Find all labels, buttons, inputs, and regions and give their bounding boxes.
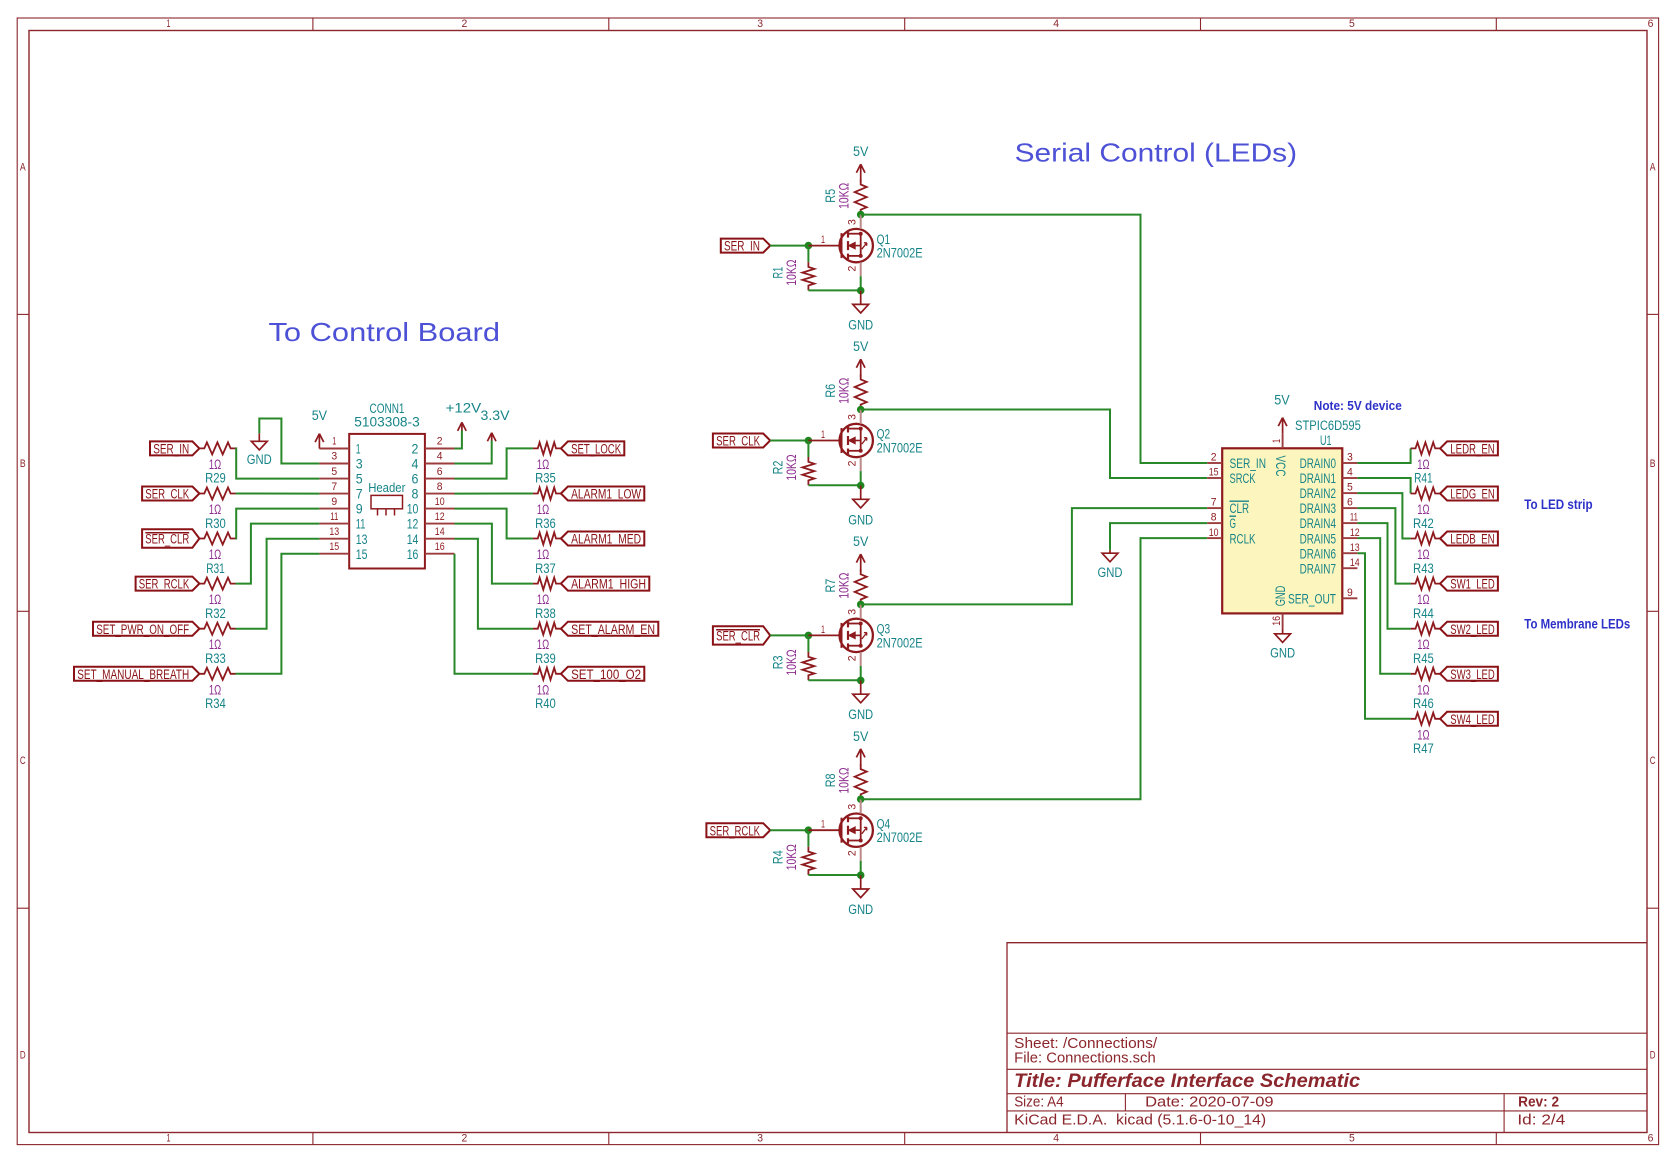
wire U1 DRAIN1 to LEDG_EN — [1357, 478, 1410, 494]
svg-text:2: 2 — [462, 1133, 468, 1145]
wire gate — [770, 245, 808, 247]
svg-text:5V: 5V — [312, 408, 327, 423]
svg-text:5: 5 — [1349, 1133, 1355, 1145]
wire gate node to pulldown — [807, 441, 809, 458]
svg-text:11: 11 — [330, 511, 338, 523]
svg-text:Serial Control (LEDs): Serial Control (LEDs) — [1015, 138, 1298, 168]
svg-text:1: 1 — [821, 624, 825, 636]
svg-text:7: 7 — [1211, 497, 1217, 509]
svg-text:9: 9 — [1347, 587, 1353, 599]
svg-text:SW4_LED: SW4_LED — [1450, 712, 1495, 727]
svg-text:GND: GND — [247, 452, 272, 467]
svg-text:LEDB_EN: LEDB_EN — [1450, 532, 1494, 547]
wire pin 16 to SET_100_O2 — [455, 554, 533, 674]
svg-text:3: 3 — [1347, 452, 1353, 464]
svg-text:10KΩ: 10KΩ — [784, 649, 799, 675]
hierarchical label SER_IN — [150, 441, 199, 456]
svg-text:B: B — [20, 458, 26, 470]
svg-text:SET_PWR_ON_OFF: SET_PWR_ON_OFF — [96, 622, 189, 637]
svg-text:RCLK: RCLK — [1230, 531, 1256, 546]
svg-text:10KΩ: 10KΩ — [836, 378, 851, 404]
power GND (connector pin 3) — [247, 433, 272, 467]
hierarchical label SER_CLR — [142, 529, 199, 547]
svg-text:Note: 5V device: Note: 5V device — [1314, 398, 1402, 413]
svg-text:R33: R33 — [205, 651, 226, 666]
junction drain node — [857, 601, 865, 609]
svg-text:R29: R29 — [205, 471, 226, 486]
svg-text:16: 16 — [435, 541, 445, 553]
resistor R38 1Ω — [533, 578, 561, 621]
svg-text:DRAIN4: DRAIN4 — [1300, 516, 1337, 531]
wire SET_MANUAL_BREATH to pin 15 — [236, 554, 320, 674]
power 5V (Q1 drain pull-up) — [853, 144, 868, 181]
svg-text:SER_CLR: SER_CLR — [145, 532, 189, 547]
svg-text:SW2_LED: SW2_LED — [1450, 622, 1495, 637]
wire U1 DRAIN6 to SW4_LED — [1357, 553, 1410, 719]
wire pin 14 to SET_ALARM_EN — [455, 539, 533, 629]
svg-text:To Control Board: To Control Board — [269, 317, 501, 347]
svg-text:6: 6 — [1648, 1133, 1654, 1145]
wire Q2 drain to U1 SRCK — [861, 410, 1207, 479]
svg-text:GND: GND — [848, 902, 873, 917]
wire pulldown to source node — [808, 289, 860, 291]
svg-text:3: 3 — [757, 1133, 763, 1145]
hierarchical label SET_MANUAL_BREATH — [74, 667, 199, 682]
wire U1 DRAIN3 to SW1_LED — [1357, 508, 1410, 583]
svg-text:1Ω: 1Ω — [209, 502, 221, 517]
svg-text:1Ω: 1Ω — [1417, 637, 1429, 652]
svg-text:11: 11 — [1350, 512, 1358, 524]
power GND (Q4 source) — [848, 875, 873, 917]
hierarchical label SET_100_O2 — [561, 667, 644, 682]
svg-text:GND: GND — [848, 707, 873, 722]
svg-text:3: 3 — [847, 609, 859, 615]
svg-text:14: 14 — [1350, 557, 1360, 569]
note: To Control Board — [269, 317, 501, 347]
hierarchical label ALARM1_LOW — [561, 487, 644, 502]
svg-text:5: 5 — [1347, 482, 1353, 494]
svg-text:R38: R38 — [535, 606, 556, 621]
wire pulldown to source node — [808, 679, 860, 681]
resistor R39 1Ω — [533, 623, 561, 666]
svg-text:1: 1 — [356, 442, 361, 457]
svg-text:SW3_LED: SW3_LED — [1450, 667, 1495, 682]
hierarchical label SER_IN (gate of Q1) — [721, 239, 770, 254]
svg-text:R41: R41 — [1414, 471, 1433, 486]
svg-text:Date: 2020-07-09: Date: 2020-07-09 — [1145, 1094, 1274, 1110]
svg-text:+12V: +12V — [446, 401, 482, 416]
svg-text:Rev: 2: Rev: 2 — [1518, 1094, 1559, 1110]
resistor R6 10KΩ pull-up — [823, 375, 867, 410]
svg-text:4: 4 — [1347, 467, 1353, 479]
svg-text:3: 3 — [356, 457, 363, 472]
svg-text:5V: 5V — [853, 729, 868, 744]
svg-text:Header: Header — [368, 481, 405, 495]
resistor R7 10KΩ pull-up — [823, 569, 867, 604]
svg-text:10: 10 — [435, 496, 445, 508]
svg-text:2N7002E: 2N7002E — [877, 246, 923, 261]
svg-text:10KΩ: 10KΩ — [784, 844, 799, 870]
svg-text:R46: R46 — [1413, 696, 1434, 711]
svg-text:13: 13 — [356, 532, 368, 547]
resistor R42 1Ω — [1411, 488, 1441, 531]
svg-text:1Ω: 1Ω — [537, 502, 549, 517]
wire source to ground node — [860, 471, 862, 485]
wire SER_RCLK to pin 11 — [236, 524, 320, 584]
svg-text:6: 6 — [1648, 18, 1654, 30]
svg-text:13: 13 — [1350, 542, 1360, 554]
svg-text:R45: R45 — [1413, 651, 1434, 666]
svg-text:3: 3 — [847, 219, 859, 225]
svg-text:1: 1 — [332, 436, 336, 448]
power GND (Q1 source) — [848, 291, 873, 333]
IC U1 STPIC6D595 — [1207, 418, 1361, 629]
svg-text:2N7002E: 2N7002E — [877, 440, 923, 455]
svg-text:1Ω: 1Ω — [537, 637, 549, 652]
resistor R5 10KΩ pull-up — [823, 180, 867, 215]
wire SER_CLK to pin 7 — [236, 493, 320, 495]
svg-text:4: 4 — [1053, 1133, 1059, 1145]
power 5V (Q4 drain pull-up) — [853, 729, 868, 766]
svg-text:R32: R32 — [205, 606, 226, 621]
svg-text:GND: GND — [1098, 565, 1123, 580]
svg-text:R40: R40 — [535, 696, 556, 711]
svg-text:SER_CLK: SER_CLK — [145, 487, 189, 502]
resistor R32 1Ω — [199, 578, 235, 621]
resistor R36 1Ω — [533, 488, 561, 531]
hierarchical label SER_CLK — [142, 487, 199, 502]
junction drain node — [857, 211, 865, 219]
note: To LED strip — [1524, 497, 1592, 512]
wire U1 DRAIN2 to LEDB_EN — [1357, 493, 1410, 538]
hierarchical label SET_ALARM_EN — [561, 622, 658, 637]
svg-text:DRAIN3: DRAIN3 — [1300, 501, 1336, 516]
svg-text:GND: GND — [1273, 585, 1288, 606]
hierarchical label SER_CLR (gate of Q3) — [713, 626, 770, 644]
svg-text:1Ω: 1Ω — [209, 592, 221, 607]
svg-text:C: C — [20, 755, 26, 767]
svg-text:DRAIN5: DRAIN5 — [1300, 531, 1336, 546]
svg-text:GND: GND — [848, 512, 873, 527]
resistor R8 10KΩ pull-up — [823, 764, 867, 799]
svg-text:5: 5 — [331, 466, 337, 478]
wire pin 2 to +12V — [455, 431, 462, 449]
svg-text:GND: GND — [848, 317, 873, 332]
power 5V (Q3 drain pull-up) — [853, 534, 868, 571]
svg-text:3.3V: 3.3V — [481, 408, 510, 423]
junction gate node — [805, 437, 813, 445]
resistor R29 1Ω — [199, 442, 235, 485]
svg-text:R44: R44 — [1413, 606, 1434, 621]
svg-text:1Ω: 1Ω — [1417, 727, 1429, 742]
power +12V (connector pin 2) — [446, 401, 482, 432]
svg-text:2: 2 — [847, 656, 859, 662]
resistor R37 1Ω — [533, 533, 561, 576]
svg-text:6: 6 — [1347, 497, 1353, 509]
svg-text:Size: A4: Size: A4 — [1014, 1094, 1063, 1110]
svg-text:GND: GND — [1270, 646, 1295, 661]
hierarchical label ALARM1_MED — [561, 532, 644, 547]
junction source node — [857, 871, 865, 879]
svg-text:2N7002E: 2N7002E — [877, 635, 923, 650]
transistor Q3 2N7002E — [808, 604, 922, 666]
svg-text:SRCK: SRCK — [1230, 471, 1256, 486]
svg-text:To LED strip: To LED strip — [1524, 497, 1592, 512]
svg-text:ALARM1_LOW: ALARM1_LOW — [571, 487, 641, 502]
resistor R3 10KΩ pulldown — [770, 649, 814, 680]
svg-text:15: 15 — [356, 547, 368, 562]
svg-text:10: 10 — [1209, 527, 1219, 539]
svg-text:2: 2 — [1211, 452, 1217, 464]
wire pin 8 to ALARM1_LOW — [455, 493, 533, 495]
wire source to ground node — [860, 276, 862, 290]
junction gate node — [805, 242, 813, 250]
svg-text:R35: R35 — [535, 471, 556, 486]
junction source node — [857, 677, 865, 685]
wire pin 10 to ALARM1_MED — [455, 509, 533, 539]
power 5V (connector pin 1) — [312, 408, 327, 448]
svg-text:1Ω: 1Ω — [537, 547, 549, 562]
svg-text:1Ω: 1Ω — [1417, 592, 1429, 607]
resistor R40 1Ω — [533, 668, 561, 711]
svg-text:DRAIN6: DRAIN6 — [1300, 546, 1336, 561]
svg-text:R37: R37 — [535, 561, 556, 576]
svg-text:8: 8 — [1211, 512, 1217, 524]
svg-text:R43: R43 — [1413, 561, 1434, 576]
svg-text:R34: R34 — [205, 696, 226, 711]
svg-text:D: D — [20, 1050, 26, 1062]
svg-text:4: 4 — [1053, 18, 1059, 30]
wire gate — [770, 440, 808, 442]
junction source node — [857, 287, 865, 295]
svg-text:14: 14 — [435, 526, 445, 538]
svg-text:1: 1 — [167, 1133, 171, 1145]
junction source node — [857, 482, 865, 490]
svg-text:10KΩ: 10KΩ — [836, 573, 851, 599]
transistor Q1 2N7002E — [808, 215, 922, 277]
svg-text:CLR: CLR — [1230, 501, 1250, 516]
wire gate — [770, 829, 808, 831]
svg-text:13: 13 — [329, 526, 339, 538]
svg-text:3: 3 — [331, 451, 337, 463]
svg-text:LEDR_EN: LEDR_EN — [1450, 442, 1494, 457]
svg-text:5V: 5V — [853, 339, 868, 354]
svg-text:3: 3 — [847, 414, 859, 420]
svg-text:Id: 2/4: Id: 2/4 — [1517, 1112, 1565, 1128]
hierarchical label LEDR_EN — [1440, 441, 1498, 456]
svg-text:DRAIN2: DRAIN2 — [1300, 486, 1336, 501]
wire gate node to pulldown — [807, 246, 809, 263]
junction gate node — [805, 632, 813, 640]
svg-text:1Ω: 1Ω — [209, 457, 221, 472]
wire U1 DRAIN4 to SW2_LED — [1357, 523, 1410, 629]
svg-text:To Membrane LEDs: To Membrane LEDs — [1524, 616, 1630, 631]
svg-text:DRAIN0: DRAIN0 — [1300, 456, 1336, 471]
svg-text:ALARM1_HIGH: ALARM1_HIGH — [571, 577, 646, 592]
svg-text:SET_ALARM_EN: SET_ALARM_EN — [571, 622, 655, 637]
junction gate node — [805, 826, 813, 834]
svg-text:3: 3 — [847, 804, 859, 810]
wire pulldown to source node — [808, 484, 860, 486]
svg-text:G: G — [1230, 516, 1237, 531]
svg-text:ALARM1_MED: ALARM1_MED — [571, 532, 641, 547]
resistor R4 10KΩ pulldown — [770, 844, 814, 875]
wire U1 DRAIN5 to SW3_LED — [1357, 538, 1410, 674]
hierarchical label SET_LOCK — [561, 441, 624, 456]
svg-text:16: 16 — [407, 547, 419, 562]
hierarchical label SW3_LED — [1440, 667, 1498, 682]
resistor R1 10KΩ pulldown — [770, 260, 814, 291]
resistor R45 1Ω — [1411, 623, 1441, 666]
wire U1 G to GND — [1110, 523, 1207, 550]
resistor R31 1Ω — [199, 533, 235, 576]
svg-text:5V: 5V — [853, 534, 868, 549]
power GND (U1 G pin) — [1098, 550, 1123, 580]
svg-text:SW1_LED: SW1_LED — [1450, 577, 1495, 592]
svg-text:SET_100_O2: SET_100_O2 — [571, 667, 641, 682]
resistor R34 1Ω — [199, 668, 235, 711]
svg-text:R47: R47 — [1413, 741, 1434, 756]
hierarchical label LEDB_EN — [1440, 532, 1498, 547]
svg-text:10KΩ: 10KΩ — [784, 454, 799, 480]
svg-text:10: 10 — [407, 502, 419, 517]
note: To Membrane LEDs — [1524, 616, 1630, 631]
svg-text:1: 1 — [821, 819, 825, 831]
svg-text:8: 8 — [412, 487, 419, 502]
svg-text:A: A — [20, 162, 26, 174]
svg-text:KiCad E.D.A. kicad (5.1.6-0-1: KiCad E.D.A. kicad (5.1.6-0-10_14) — [1014, 1112, 1266, 1128]
power 5V (U1 VCC) — [1274, 393, 1289, 434]
svg-text:SER_CLK: SER_CLK — [716, 434, 760, 449]
wire gate — [770, 634, 808, 636]
wire Q4 drain to U1 RCLK — [861, 538, 1207, 799]
resistor R46 1Ω — [1411, 668, 1441, 711]
svg-text:1: 1 — [821, 234, 825, 246]
wire SER_CLR to pin 9 — [236, 509, 320, 539]
svg-text:4: 4 — [412, 457, 419, 472]
wire source to ground node — [860, 666, 862, 680]
junction drain node — [857, 406, 865, 414]
svg-text:5103308-3: 5103308-3 — [354, 415, 419, 430]
transistor Q2 2N7002E — [808, 410, 922, 472]
resistor R41 1Ω — [1411, 442, 1441, 485]
svg-text:DRAIN7: DRAIN7 — [1300, 561, 1336, 576]
svg-text:8: 8 — [437, 481, 443, 493]
junction drain node — [857, 795, 865, 803]
resistor R44 1Ω — [1411, 578, 1441, 621]
wire pin 12 to ALARM1_HIGH — [455, 524, 533, 584]
svg-text:10KΩ: 10KΩ — [836, 767, 851, 793]
svg-text:D: D — [1650, 1050, 1656, 1062]
resistor R33 1Ω — [199, 623, 235, 666]
svg-text:STPIC6D595: STPIC6D595 — [1295, 418, 1361, 433]
svg-text:VCC: VCC — [1273, 456, 1288, 477]
svg-text:SET_MANUAL_BREATH: SET_MANUAL_BREATH — [77, 667, 189, 682]
svg-text:SER_IN: SER_IN — [153, 442, 189, 457]
title block — [1007, 943, 1647, 1133]
svg-text:R36: R36 — [535, 516, 556, 531]
svg-text:9: 9 — [331, 496, 337, 508]
svg-text:SET_LOCK: SET_LOCK — [571, 442, 621, 457]
svg-text:7: 7 — [331, 481, 337, 493]
connector CONN1 5103308-3 — [319, 401, 454, 568]
svg-text:5: 5 — [1349, 18, 1355, 30]
svg-text:SER_RCLK: SER_RCLK — [710, 823, 760, 838]
svg-text:1Ω: 1Ω — [537, 592, 549, 607]
resistor R47 1Ω — [1411, 713, 1441, 756]
power GND (U1 pin 16) — [1270, 628, 1295, 660]
svg-text:1Ω: 1Ω — [1417, 502, 1429, 517]
svg-text:7: 7 — [356, 487, 363, 502]
svg-text:LEDG_EN: LEDG_EN — [1450, 487, 1494, 502]
svg-text:6: 6 — [412, 472, 419, 487]
wire SER_IN to pin 5 — [236, 448, 320, 478]
resistor R2 10KΩ pulldown — [770, 454, 814, 485]
svg-text:A: A — [1650, 162, 1656, 174]
wire gate node to pulldown — [807, 830, 809, 847]
svg-text:1Ω: 1Ω — [209, 547, 221, 562]
svg-text:9: 9 — [356, 502, 363, 517]
hierarchical label SER_RCLK (gate of Q4) — [706, 823, 770, 838]
svg-text:1: 1 — [1271, 439, 1283, 443]
svg-text:SER_CLR: SER_CLR — [716, 629, 760, 644]
svg-text:1: 1 — [821, 429, 825, 441]
svg-text:10KΩ: 10KΩ — [836, 183, 851, 209]
svg-text:12: 12 — [1350, 527, 1360, 539]
resistor R35 1Ω — [533, 442, 561, 485]
svg-text:12: 12 — [435, 511, 445, 523]
wire Q1 drain to U1 SER_IN — [861, 215, 1207, 463]
svg-text:5: 5 — [356, 472, 363, 487]
resistor R43 1Ω — [1411, 533, 1441, 576]
svg-text:5V: 5V — [1274, 393, 1289, 408]
svg-text:14: 14 — [407, 532, 419, 547]
svg-text:2: 2 — [412, 442, 419, 457]
svg-text:4: 4 — [437, 451, 443, 463]
svg-text:15: 15 — [329, 541, 339, 553]
hierarchical label ALARM1_HIGH — [561, 577, 649, 592]
svg-text:Title: Pufferface Interface Sc: Title: Pufferface Interface Schematic — [1014, 1070, 1360, 1092]
svg-text:10KΩ: 10KΩ — [784, 260, 799, 286]
svg-text:16: 16 — [1271, 616, 1283, 626]
hierarchical label SET_PWR_ON_OFF — [93, 622, 199, 637]
hierarchical label SW4_LED — [1440, 712, 1498, 727]
svg-text:R39: R39 — [535, 651, 556, 666]
power 3.3V (connector pin 4) — [481, 408, 510, 442]
svg-text:2: 2 — [462, 18, 468, 30]
svg-text:R30: R30 — [205, 516, 226, 531]
transistor Q4 2N7002E — [808, 799, 922, 861]
svg-text:DRAIN1: DRAIN1 — [1300, 471, 1336, 486]
wire source to ground node — [860, 861, 862, 875]
svg-text:2N7002E: 2N7002E — [877, 830, 923, 845]
svg-text:5V: 5V — [853, 144, 868, 159]
svg-text:SER_IN: SER_IN — [1230, 456, 1267, 471]
note: Serial Control (LEDs) — [1015, 138, 1298, 168]
svg-text:1Ω: 1Ω — [1417, 457, 1429, 472]
svg-text:11: 11 — [356, 517, 366, 532]
wire SET_PWR_ON_OFF to pin 13 — [236, 539, 320, 629]
hierarchical label SW1_LED — [1440, 577, 1498, 592]
svg-text:SER_IN: SER_IN — [724, 239, 760, 254]
hierarchical label SW2_LED — [1440, 622, 1498, 637]
svg-text:15: 15 — [1209, 467, 1219, 479]
svg-text:B: B — [1650, 458, 1656, 470]
hierarchical label SER_CLK (gate of Q2) — [713, 434, 770, 449]
svg-text:SER_OUT: SER_OUT — [1288, 591, 1336, 606]
wire Q3 drain to U1 CLR — [861, 508, 1207, 604]
svg-text:1Ω: 1Ω — [537, 457, 549, 472]
